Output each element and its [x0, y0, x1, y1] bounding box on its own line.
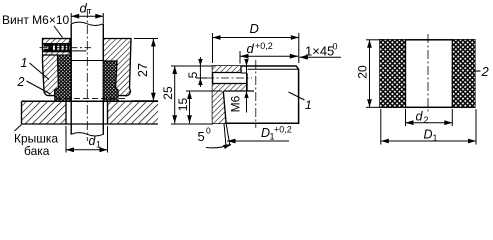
label 1 with leader (middle view): [289, 92, 312, 112]
tank cover plate (kryshka baka): [22, 101, 159, 124]
label 1 with leader: [21, 56, 50, 80]
svg-text:15: 15: [176, 98, 190, 112]
svg-text:d: d: [416, 110, 424, 124]
screw M6x10 in side hole: [43, 44, 71, 52]
label 2 with leader (right view): [473, 64, 490, 79]
part1 central hole (half section): [224, 66, 254, 91]
part2 right wall rubber hatch: [452, 40, 475, 108]
dimension 15: [176, 91, 222, 123]
svg-text:5: 5: [186, 71, 200, 78]
svg-text:1: 1: [21, 56, 28, 70]
svg-text:М6: М6: [229, 95, 243, 112]
svg-text:1×45: 1×45: [305, 44, 334, 59]
white paper background: [0, 0, 493, 156]
dimension d_t (rod diameter): [71, 1, 103, 24]
body part1: left wall lower piece: [43, 55, 59, 96]
rubber part2: right wedge: [103, 61, 118, 101]
svg-text:D: D: [250, 21, 259, 36]
part1 outer outline: [213, 66, 299, 123]
dimension 25: [161, 66, 213, 124]
body part1: top-left strip: [43, 39, 71, 44]
screw tip edge line across rod: [71, 50, 87, 52]
thread label M6 with arrow: [229, 59, 249, 113]
rubber part2: left wedge: [55, 55, 71, 101]
rubber top face edge behind rod: [71, 60, 103, 62]
label 2 with leader: [17, 75, 51, 94]
svg-text:2: 2: [424, 115, 429, 125]
label: Винт М6х10: [2, 13, 70, 38]
dimension D1 (right view): [381, 109, 476, 145]
part1 conical cavity wall 5deg: [223, 91, 226, 123]
dimension D: [213, 21, 299, 63]
part2 outline: [380, 40, 475, 108]
part2 left wall rubber hatch: [380, 40, 406, 108]
label Крышка бака with leader: [14, 125, 58, 159]
svg-text:0: 0: [206, 126, 211, 136]
svg-text:20: 20: [356, 65, 370, 79]
svg-text:d: d: [247, 41, 255, 56]
svg-text:2: 2: [481, 64, 490, 79]
M6 side hole centerline: [206, 77, 252, 79]
svg-text:1: 1: [305, 98, 312, 112]
dimension 20: [356, 40, 382, 108]
chamfer note 1x45: [299, 42, 341, 60]
dimension d+0,2: [240, 41, 298, 64]
svg-text:+0,2: +0,2: [274, 125, 292, 135]
svg-text:1: 1: [433, 133, 438, 143]
horizontal phantom centerline near plate: [56, 97, 128, 99]
part2 centerline: [427, 34, 429, 113]
chamfer edge line below top face (exterior half): [248, 68, 299, 70]
dimension 5: [186, 57, 214, 87]
svg-text:1: 1: [96, 140, 101, 150]
dimension d2: [406, 109, 453, 126]
svg-text:т: т: [88, 6, 92, 16]
rod (tyaga): [71, 22, 103, 136]
svg-text:бака: бака: [24, 144, 50, 156]
angle 5deg: [198, 124, 232, 149]
part1 M6 side hole: [213, 73, 248, 84]
svg-text:Винт М6×10: Винт М6×10: [2, 13, 70, 27]
svg-text:5: 5: [198, 129, 205, 144]
dimension d1 (hole in plate): [66, 126, 108, 153]
dimension 27: [132, 39, 159, 101]
part1 vertical centerline: [255, 60, 257, 128]
dimension D1+0,2 (middle view): [227, 125, 292, 144]
svg-text:d: d: [80, 1, 88, 16]
svg-text:27: 27: [136, 63, 150, 77]
svg-text:25: 25: [161, 86, 175, 100]
body part1: right wall block: [103, 39, 131, 96]
screw axis centerline: [40, 47, 92, 49]
part1 hatching: [213, 66, 248, 123]
svg-text:D: D: [424, 128, 433, 142]
svg-text:2: 2: [17, 75, 25, 89]
svg-text:+0,2: +0,2: [255, 41, 273, 51]
svg-text:0: 0: [333, 42, 338, 52]
body part1: left band below screw hole: [43, 52, 71, 55]
rod centerline: [86, 9, 88, 141]
